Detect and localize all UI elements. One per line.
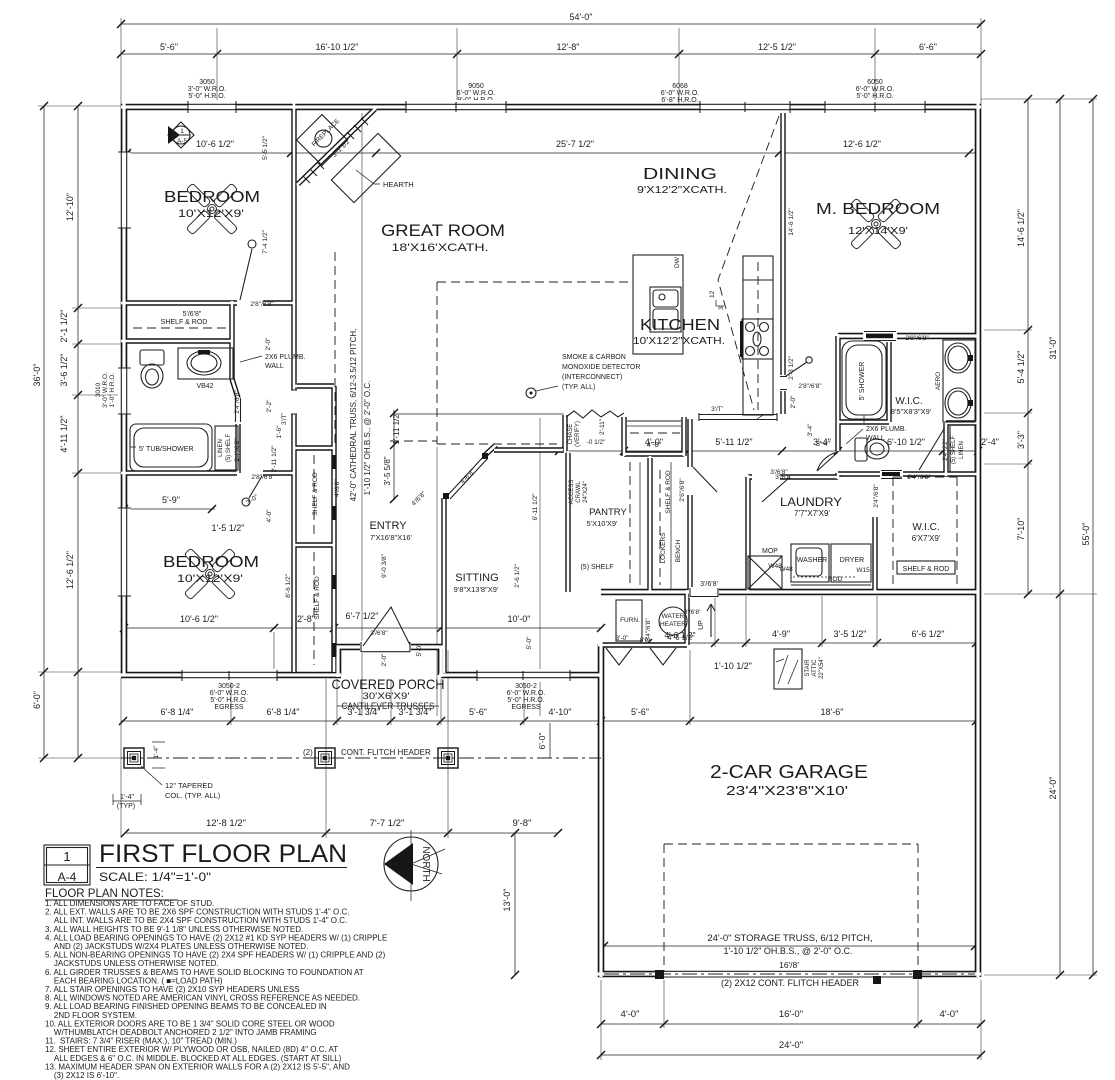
svg-text:12" TAPERED: 12" TAPERED <box>165 781 213 790</box>
svg-text:6'-6": 6'-6" <box>919 42 937 52</box>
svg-text:6068: 6068 <box>672 83 688 90</box>
svg-text:13'-0": 13'-0" <box>502 889 512 912</box>
svg-text:5'/6'8": 5'/6'8" <box>183 311 202 318</box>
svg-text:(2): (2) <box>303 748 313 757</box>
hall closet labels <box>665 470 718 588</box>
svg-text:1'-4": 1'-4" <box>120 794 134 801</box>
door: stairs up at garage wall <box>689 587 719 598</box>
svg-text:2'8"/6'8": 2'8"/6'8" <box>798 383 822 390</box>
svg-text:AERO: AERO <box>935 372 942 390</box>
kitchen island <box>633 255 683 354</box>
svg-text:(TYP. ALL): (TYP. ALL) <box>562 384 595 391</box>
dim row 10'-6 1/2 / 25'-7 1/2 / 12'-6 1/2 at y153 <box>121 139 975 157</box>
label: HEARTH + leader <box>356 170 414 189</box>
svg-text:2'4"/6'8": 2'4"/6'8" <box>873 484 880 508</box>
window: left wall bedroom1 <box>118 152 131 228</box>
svg-text:W15: W15 <box>856 567 870 574</box>
dim row porch 6'-8 1/4 etc at y721 <box>119 707 980 725</box>
sitting diagonal opening <box>443 453 488 499</box>
svg-text:18'X16'XCATH.: 18'X16'XCATH. <box>392 242 489 254</box>
svg-text:5'-0" H.R.O.: 5'-0" H.R.O. <box>856 93 893 100</box>
window label 6050 egress <box>856 79 894 107</box>
svg-text:5'-0": 5'-0" <box>526 636 533 650</box>
wall: lockers strip x690 <box>687 419 692 592</box>
svg-text:FIRST FLOOR PLAN: FIRST FLOOR PLAN <box>99 840 347 868</box>
title box A-4 <box>44 845 90 885</box>
garage storage dashed rect <box>664 844 918 971</box>
label: 3'-0 + 4'-0 bedroom2 door <box>245 493 273 522</box>
svg-text:8'-6 1/2": 8'-6 1/2" <box>285 573 292 597</box>
svg-text:W.I.C.: W.I.C. <box>912 522 939 533</box>
svg-text:10'X12'X9': 10'X12'X9' <box>177 573 243 585</box>
dim row bottom 12'-8 1/2 / 7'-7 1/2 / 9'-8 at y833 <box>121 818 562 837</box>
wall: bath2 west x838 <box>835 336 840 477</box>
dashed: kitchen counter center <box>757 262 759 410</box>
svg-text:6'-8 1/4": 6'-8 1/4" <box>267 707 300 717</box>
svg-text:(VERIFY): (VERIFY) <box>575 421 581 447</box>
svg-text:(5) SHELF: (5) SHELF <box>580 564 613 571</box>
label: KITCHEN <box>633 317 725 347</box>
svg-text:5'-11 1/2": 5'-11 1/2" <box>715 437 752 447</box>
svg-text:2'-4": 2'-4" <box>981 437 999 447</box>
svg-text:MOP: MOP <box>762 548 778 555</box>
svg-text:HEATER: HEATER <box>660 621 686 628</box>
svg-text:5'-5 1/2": 5'-5 1/2" <box>262 135 269 159</box>
svg-text:9'8"X13'8"X9': 9'8"X13'8"X9' <box>454 585 499 594</box>
label: 1'-4 typ <box>113 742 165 810</box>
svg-text:4'-0": 4'-0" <box>647 440 662 449</box>
svg-text:25'-7 1/2": 25'-7 1/2" <box>556 139 594 149</box>
wall: entry recess <box>335 647 444 675</box>
label: laundry doors <box>684 474 794 616</box>
svg-text:-0 1/2": -0 1/2" <box>587 439 607 446</box>
svg-text:3'-0" W.R.O.: 3'-0" W.R.O. <box>102 372 109 408</box>
svg-text:5'-9": 5'-9" <box>162 495 180 505</box>
svg-text:6'-0" W.R.O.: 6'-0" W.R.O. <box>507 690 545 697</box>
svg-text:3'-0": 3'-0" <box>616 635 630 642</box>
svg-text:6'-10 1/2": 6'-10 1/2" <box>887 437 925 447</box>
svg-text:12'-6 1/2": 12'-6 1/2" <box>843 139 881 149</box>
svg-text:(2) 2X12 CONT. FLITCH HEADER: (2) 2X12 CONT. FLITCH HEADER <box>721 978 860 988</box>
svg-text:COVERED PORCH: COVERED PORCH <box>332 676 445 692</box>
wall: garage/laundry divider y592 <box>601 589 978 596</box>
svg-text:10'-0": 10'-0" <box>508 614 531 624</box>
svg-text:6'-0" W.R.O.: 6'-0" W.R.O. <box>661 90 699 97</box>
door: bedroom1 leaf+knob <box>240 240 256 300</box>
svg-text:3'-3": 3'-3" <box>1016 431 1026 449</box>
svg-text:UP: UP <box>698 620 705 630</box>
dim row 5'-9 bath1 <box>120 495 244 533</box>
svg-text:CRAWL: CRAWL <box>576 481 582 503</box>
svg-text:6'-0" W.R.O.: 6'-0" W.R.O. <box>856 86 894 93</box>
svg-text:3'/6'8": 3'/6'8" <box>775 474 793 481</box>
label: tapered column <box>141 766 221 800</box>
svg-text:24'-0": 24'-0" <box>1048 777 1058 800</box>
svg-text:STAIR: STAIR <box>805 659 811 677</box>
dashed: great room cathedral outline <box>390 282 630 444</box>
svg-text:4'-0": 4'-0" <box>940 1009 959 1020</box>
svg-text:3'/T': 3'/T' <box>281 413 288 425</box>
svg-text:6'-6 1/2": 6'-6 1/2" <box>912 629 945 639</box>
svg-text:CHASE: CHASE <box>568 424 574 445</box>
window: bedroom2 bottom 3050-2 <box>182 669 277 682</box>
svg-text:54'-0": 54'-0" <box>570 12 593 22</box>
svg-text:5'-0" H.R.O.: 5'-0" H.R.O. <box>507 697 544 704</box>
svg-text:NORTH: NORTH <box>420 846 431 881</box>
svg-text:7'-7 1/2": 7'-7 1/2" <box>370 818 405 829</box>
svg-text:14'-6 1/2": 14'-6 1/2" <box>788 208 795 236</box>
svg-text:9'X12'2"XCATH.: 9'X12'2"XCATH. <box>637 184 727 196</box>
svg-text:SHELF & ROD: SHELF & ROD <box>161 319 208 326</box>
svg-text:2'4"/6'8": 2'4"/6'8" <box>907 474 931 481</box>
svg-text:2'-3 1/2": 2'-3 1/2" <box>788 355 795 379</box>
svg-text:12'X14'X9': 12'X14'X9' <box>848 225 908 237</box>
door: bath2 from hall w/ swing <box>817 452 838 471</box>
svg-text:31'-0": 31'-0" <box>1048 337 1058 360</box>
wall: bedroom strip bottom / porch face <box>121 672 341 679</box>
svg-text:WATER: WATER <box>662 613 685 620</box>
svg-text:ATTIC: ATTIC <box>812 659 818 677</box>
marker: A-5 section <box>168 122 194 148</box>
svg-text:1'-5 1/2": 1'-5 1/2" <box>212 523 245 533</box>
svg-text:10'X12'X9': 10'X12'X9' <box>178 208 244 220</box>
wall: bath1 bottom / bedroom2 top y473 <box>121 470 294 475</box>
wall: furnace closet <box>601 592 687 645</box>
stair attic box <box>774 649 825 689</box>
label: cathedral truss rotated <box>349 329 372 502</box>
vanity: bath1 VB42 <box>178 348 233 390</box>
svg-text:16'-0": 16'-0" <box>779 1009 803 1020</box>
label: ENTRY <box>369 520 412 542</box>
closet rotated labels <box>285 472 341 620</box>
dim row 24'-0 bottom <box>597 1040 985 1059</box>
svg-text:BEDROOM: BEDROOM <box>163 554 259 571</box>
svg-text:5'-4 1/2": 5'-4 1/2" <box>1016 351 1026 384</box>
lockers / bench <box>660 462 682 590</box>
dim row 54'-0" <box>117 12 985 28</box>
svg-text:2X6 PLUMB.: 2X6 PLUMB. <box>265 354 306 361</box>
label: 2-CAR GARAGE <box>710 762 868 798</box>
svg-text:3'-4": 3'-4" <box>816 441 830 448</box>
svg-text:(5) SHELF: (5) SHELF <box>951 435 957 464</box>
toilet: bath1 <box>140 350 164 388</box>
dashed: load path vertical x335 <box>334 252 336 446</box>
svg-text:EGRESS: EGRESS <box>511 704 541 711</box>
svg-text:DINING: DINING <box>643 166 717 183</box>
window label 3010 rotated <box>95 372 116 408</box>
svg-text:W.I.C.: W.I.C. <box>895 396 922 407</box>
door: m.bedroom pocket 2'8/6'8 <box>863 330 929 342</box>
wall: bedroom1 right / hall x294 <box>291 104 296 672</box>
label: GREAT ROOM <box>381 222 505 254</box>
extension lines top <box>121 18 981 104</box>
svg-text:24'-0": 24'-0" <box>779 1040 803 1051</box>
wall: kitchen/dining - m.bedroom x783 <box>780 110 785 414</box>
svg-text:EGRESS: EGRESS <box>214 704 244 711</box>
svg-text:6050: 6050 <box>867 79 883 86</box>
chase labels <box>587 418 607 446</box>
furnace <box>616 600 642 641</box>
svg-text:GREAT ROOM: GREAT ROOM <box>381 222 505 240</box>
dim 13'-0 vertical below porch <box>502 829 519 979</box>
svg-text:5'-6": 5'-6" <box>160 42 178 52</box>
svg-text:SITTING: SITTING <box>455 572 498 584</box>
closet rods dashed <box>313 455 315 665</box>
svg-text:A-4: A-4 <box>58 870 77 884</box>
svg-text:55'-0": 55'-0" <box>1081 523 1091 546</box>
wall: sitting bottom <box>441 672 601 679</box>
svg-text:3'-6 1/2": 3'-6 1/2" <box>59 354 69 387</box>
svg-text:1: 1 <box>63 849 70 864</box>
svg-text:COL. (TYP. ALL): COL. (TYP. ALL) <box>165 791 221 800</box>
svg-text:LAUNDRY: LAUNDRY <box>780 497 842 509</box>
svg-text:2'6"/6'8": 2'6"/6'8" <box>679 478 686 502</box>
svg-text:2'4"/2'2": 2'4"/2'2" <box>943 439 949 461</box>
svg-text:2'-11": 2'-11" <box>599 418 606 435</box>
svg-text:3050-2: 3050-2 <box>515 683 537 690</box>
linen2 <box>943 426 975 472</box>
svg-text:9050: 9050 <box>468 83 484 90</box>
kitchen closet 4'-0 shelf <box>627 415 763 449</box>
label: 3050-2 bedroom2 window <box>210 683 248 711</box>
svg-text:9'-0 3/8": 9'-0 3/8" <box>381 553 388 577</box>
window: left wall bedroom2 <box>118 508 131 596</box>
svg-text:A-5: A-5 <box>177 138 188 145</box>
label: BEDROOM 1 <box>164 189 260 220</box>
dim row 10'-6 1/2 / 2'-8 / 6'-7 1/2 / 10'-0 at y628 <box>120 611 605 632</box>
opening: 3'/T kitchen-laundry passage <box>699 413 777 421</box>
wall: bath1 door jog <box>232 379 238 473</box>
svg-text:2'4"/6'8": 2'4"/6'8" <box>645 618 652 642</box>
laundry: washer/dryer <box>779 544 871 585</box>
smoke detector <box>526 354 640 398</box>
svg-text:LOCKERS: LOCKERS <box>660 532 667 564</box>
svg-text:4'-11 1/2": 4'-11 1/2" <box>59 415 69 452</box>
svg-text:1'-10 1/2" OH.B.S., @ 2'-0" O.: 1'-10 1/2" OH.B.S., @ 2'-0" O.C. <box>363 381 372 496</box>
dim chain 36'-0" / 6'-0" <box>32 102 48 762</box>
label: 3050-2 sitting window <box>507 683 545 711</box>
svg-text:LINEN: LINEN <box>218 439 224 457</box>
svg-text:5' TUB/SHOWER: 5' TUB/SHOWER <box>139 446 194 453</box>
door: closetA 4'/6'8 jamb bars <box>332 455 337 520</box>
window label 6068 <box>661 83 699 104</box>
svg-text:5' SHOWER: 5' SHOWER <box>859 362 866 401</box>
svg-text:1'-11 1/2": 1'-11 1/2" <box>392 411 401 444</box>
svg-text:7'-10": 7'-10" <box>1016 518 1026 541</box>
wall: hall stub y386 <box>297 383 334 388</box>
svg-text:1'-6": 1'-6" <box>276 425 283 439</box>
wall: garage bottom <box>598 971 978 978</box>
wall: closet top y448 <box>294 445 334 450</box>
wall: bath2 bottom y474 <box>838 471 978 476</box>
window: left wall 3010 bath <box>118 368 131 414</box>
svg-text:2'8"/6'8": 2'8"/6'8" <box>905 335 929 342</box>
label: DINING <box>637 166 727 196</box>
tub: 5' tub/shower <box>130 424 212 471</box>
svg-text:MONOXIDE DETECTOR: MONOXIDE DETECTOR <box>562 364 640 371</box>
door: closetB jamb bars <box>332 575 337 657</box>
wall: sitting diagonal top <box>484 445 496 456</box>
svg-text:PANTRY: PANTRY <box>589 507 627 518</box>
svg-text:4'-9": 4'-9" <box>772 629 790 639</box>
svg-text:3'-5 5/8": 3'-5 5/8" <box>383 456 392 485</box>
svg-text:5'-6": 5'-6" <box>469 707 487 717</box>
dim row y451 hallway 4'-0 / 5'-11 1/2 / 3'-4 / 6'-10 1/2 / 2'-4 <box>545 437 999 455</box>
svg-text:CONT. FLITCH HEADER: CONT. FLITCH HEADER <box>341 748 431 757</box>
wall: closet1 bottom y341 <box>121 338 233 343</box>
svg-text:1'-10 1/2" OH.B.S., @ 2'-0" O.: 1'-10 1/2" OH.B.S., @ 2'-0" O.C. <box>723 946 852 956</box>
svg-text:2'4"/6'8": 2'4"/6'8" <box>234 438 241 462</box>
dim chain x394 entry 1'-11 1/2 / 3'-5 5/8 <box>383 409 565 503</box>
window label 3050 egress <box>188 79 226 107</box>
svg-text:WALL: WALL <box>265 363 284 370</box>
svg-text:WALL: WALL <box>866 435 885 442</box>
svg-text:3050-2: 3050-2 <box>218 683 240 690</box>
svg-text:6'-8 1/4": 6'-8 1/4" <box>161 707 194 717</box>
svg-text:2'-11 1/2": 2'-11 1/2" <box>271 445 278 473</box>
svg-text:24"X24": 24"X24" <box>583 481 589 503</box>
svg-text:5'-0" H.R.O.: 5'-0" H.R.O. <box>188 93 225 100</box>
furnace closet doors chevrons <box>606 648 676 665</box>
door: top wall 6068 sliding <box>700 100 790 113</box>
svg-text:3'/6'8': 3'/6'8' <box>684 609 700 616</box>
svg-text:2X6 PLUMB.: 2X6 PLUMB. <box>866 426 907 433</box>
dim row garage top 4'-6 1/2 / 4'-9 / 3'-5 1/2 / 6'-6 1/2 at y643 <box>604 629 980 647</box>
svg-text:SHELF & ROD: SHELF & ROD <box>314 576 321 620</box>
svg-text:24'-0" STORAGE TRUSS, 6/12 PIT: 24'-0" STORAGE TRUSS, 6/12 PITCH, <box>707 933 872 944</box>
svg-text:7'X16'8"X16': 7'X16'8"X16' <box>370 533 413 542</box>
svg-text:3'-4": 3'-4" <box>807 423 814 437</box>
svg-text:WASHER: WASHER <box>797 557 827 564</box>
vanity2 with two sinks <box>935 340 975 422</box>
water heater <box>659 607 687 635</box>
label: covered porch <box>332 676 445 712</box>
shower stall <box>842 341 886 423</box>
svg-text:ACCESS: ACCESS <box>569 480 575 505</box>
plumb wall label bath2 <box>846 426 907 444</box>
svg-text:3'/6'8": 3'/6'8" <box>370 630 388 637</box>
svg-text:36'-0": 36'-0" <box>32 364 42 387</box>
svg-text:8'5"X8'3"X9': 8'5"X8'3"X9' <box>891 407 932 416</box>
fireplace box <box>297 115 348 166</box>
svg-text:FURN.: FURN. <box>620 617 640 624</box>
garage door opening 16' <box>604 969 975 984</box>
pantry interior <box>580 462 640 585</box>
svg-text:12'-10": 12'-10" <box>65 193 75 221</box>
svg-text:4'/6'8": 4'/6'8" <box>334 479 341 497</box>
fan: bedroom1 <box>186 183 238 235</box>
svg-text:ROD: ROD <box>828 576 843 583</box>
svg-text:3: 3 <box>718 306 725 310</box>
door: entry 3'/6'8" swing <box>360 607 411 653</box>
svg-text:6'-11 1/2": 6'-11 1/2" <box>532 493 539 521</box>
svg-text:5'-0": 5'-0" <box>416 643 423 657</box>
svg-text:(TYP): (TYP) <box>117 803 135 810</box>
svg-text:12'-5 1/2": 12'-5 1/2" <box>758 42 796 52</box>
dim chain 31'-0 / 24'-0 <box>1048 95 1064 979</box>
WIC2 dashed closet <box>893 477 957 589</box>
wall: top exterior <box>121 104 981 111</box>
UP arrow <box>698 604 715 637</box>
svg-text:42'-0" CATHEDRAL TRUSS, 6/12-3: 42'-0" CATHEDRAL TRUSS, 6/12-3.5/12 PITC… <box>349 329 358 502</box>
svg-text:6'-0": 6'-0" <box>32 691 42 709</box>
wall: entry closet right x334 <box>331 386 336 672</box>
dim chain 14'-6 1/2 / 5'-4 1/2 / 3'-3 / 7'-10 <box>1016 95 1032 598</box>
svg-text:1'-0" H.R.O.: 1'-0" H.R.O. <box>109 373 116 408</box>
window: sitting bottom 3050-2 <box>477 669 570 682</box>
svg-text:5'X10'X9': 5'X10'X9' <box>587 519 619 528</box>
svg-text:3050: 3050 <box>199 79 215 86</box>
wall: laundry west x748 <box>745 477 750 592</box>
svg-text:16'/8': 16'/8' <box>779 960 799 970</box>
label: M. BEDROOM <box>816 201 940 237</box>
plumb wall label bath1 <box>240 354 306 370</box>
svg-text:7'-4 1/2": 7'-4 1/2" <box>262 229 269 253</box>
svg-text:2'-0": 2'-0" <box>265 337 272 351</box>
garage interior line y946 <box>600 942 979 950</box>
label: SITTING <box>454 572 499 594</box>
wall: laundry/wic divider x875 <box>872 517 877 592</box>
floor plan notes <box>45 899 387 1080</box>
svg-text:6'-8" H.R.O.: 6'-8" H.R.O. <box>661 97 698 104</box>
dim chain 55'-0 <box>1081 95 1097 979</box>
svg-text:6'X7'X9': 6'X7'X9' <box>912 534 941 543</box>
svg-text:3'-5 1/2": 3'-5 1/2" <box>834 629 867 639</box>
svg-text:23'4"X23'8"X10': 23'4"X23'8"X10' <box>726 783 848 798</box>
label: 12/3 pitch marker <box>709 290 725 310</box>
linen: bath1 <box>215 426 238 470</box>
extension lines right <box>981 99 1097 975</box>
svg-text:12: 12 <box>709 290 716 298</box>
svg-text:4'-6 1/2": 4'-6 1/2" <box>667 633 695 642</box>
hearth box <box>331 133 400 202</box>
kitchen right counter <box>740 256 773 415</box>
door: bath2 pocket bottom <box>880 469 931 481</box>
svg-text:2'-8": 2'-8" <box>297 614 315 624</box>
svg-text:5'-0" H.R.O.: 5'-0" H.R.O. <box>210 697 247 704</box>
svg-text:2'8"/6'8": 2'8"/6'8" <box>250 301 274 308</box>
garage labels <box>707 933 872 988</box>
dim chain 12'-10 / 2'-1 1/2 / 3'-6 1/2 / 4'-11 1/2 / 12'-6 1/2 <box>59 102 82 762</box>
svg-text:3'-0" W.R.O.: 3'-0" W.R.O. <box>188 86 226 93</box>
north arrow <box>384 830 445 901</box>
label: m.suite hall dims rotated <box>645 208 880 642</box>
svg-text:ENTRY: ENTRY <box>369 520 407 532</box>
porch columns <box>124 748 144 768</box>
toilet: bath2 <box>855 438 889 461</box>
svg-text:VB42: VB42 <box>196 383 213 390</box>
wall: sitting west x444 <box>441 498 446 675</box>
svg-text:18'-6": 18'-6" <box>821 707 844 717</box>
furnace labels <box>616 633 696 644</box>
svg-text:SHELF & ROD: SHELF & ROD <box>665 470 672 514</box>
chase <box>566 410 624 447</box>
svg-text:2'-0": 2'-0" <box>790 395 797 409</box>
svg-text:1: 1 <box>180 128 184 135</box>
door: m.bedroom entry <box>779 357 812 391</box>
wall: closet1/vanity right x232 <box>229 303 234 379</box>
fan: bedroom2 <box>184 548 236 600</box>
dim 6'-0 vertical at porch right <box>537 723 550 758</box>
label: BEDROOM 2 <box>163 554 259 585</box>
svg-text:5'-6": 5'-6" <box>631 707 649 717</box>
svg-text:HEARTH: HEARTH <box>383 180 414 189</box>
wall: pantry east x650 <box>647 458 652 592</box>
extension lines bottom garage <box>601 978 981 1060</box>
label: W.I.C. master <box>891 396 932 416</box>
svg-text:1'-10 1/2": 1'-10 1/2" <box>714 661 752 671</box>
wall: fireplace diagonal <box>298 109 375 184</box>
